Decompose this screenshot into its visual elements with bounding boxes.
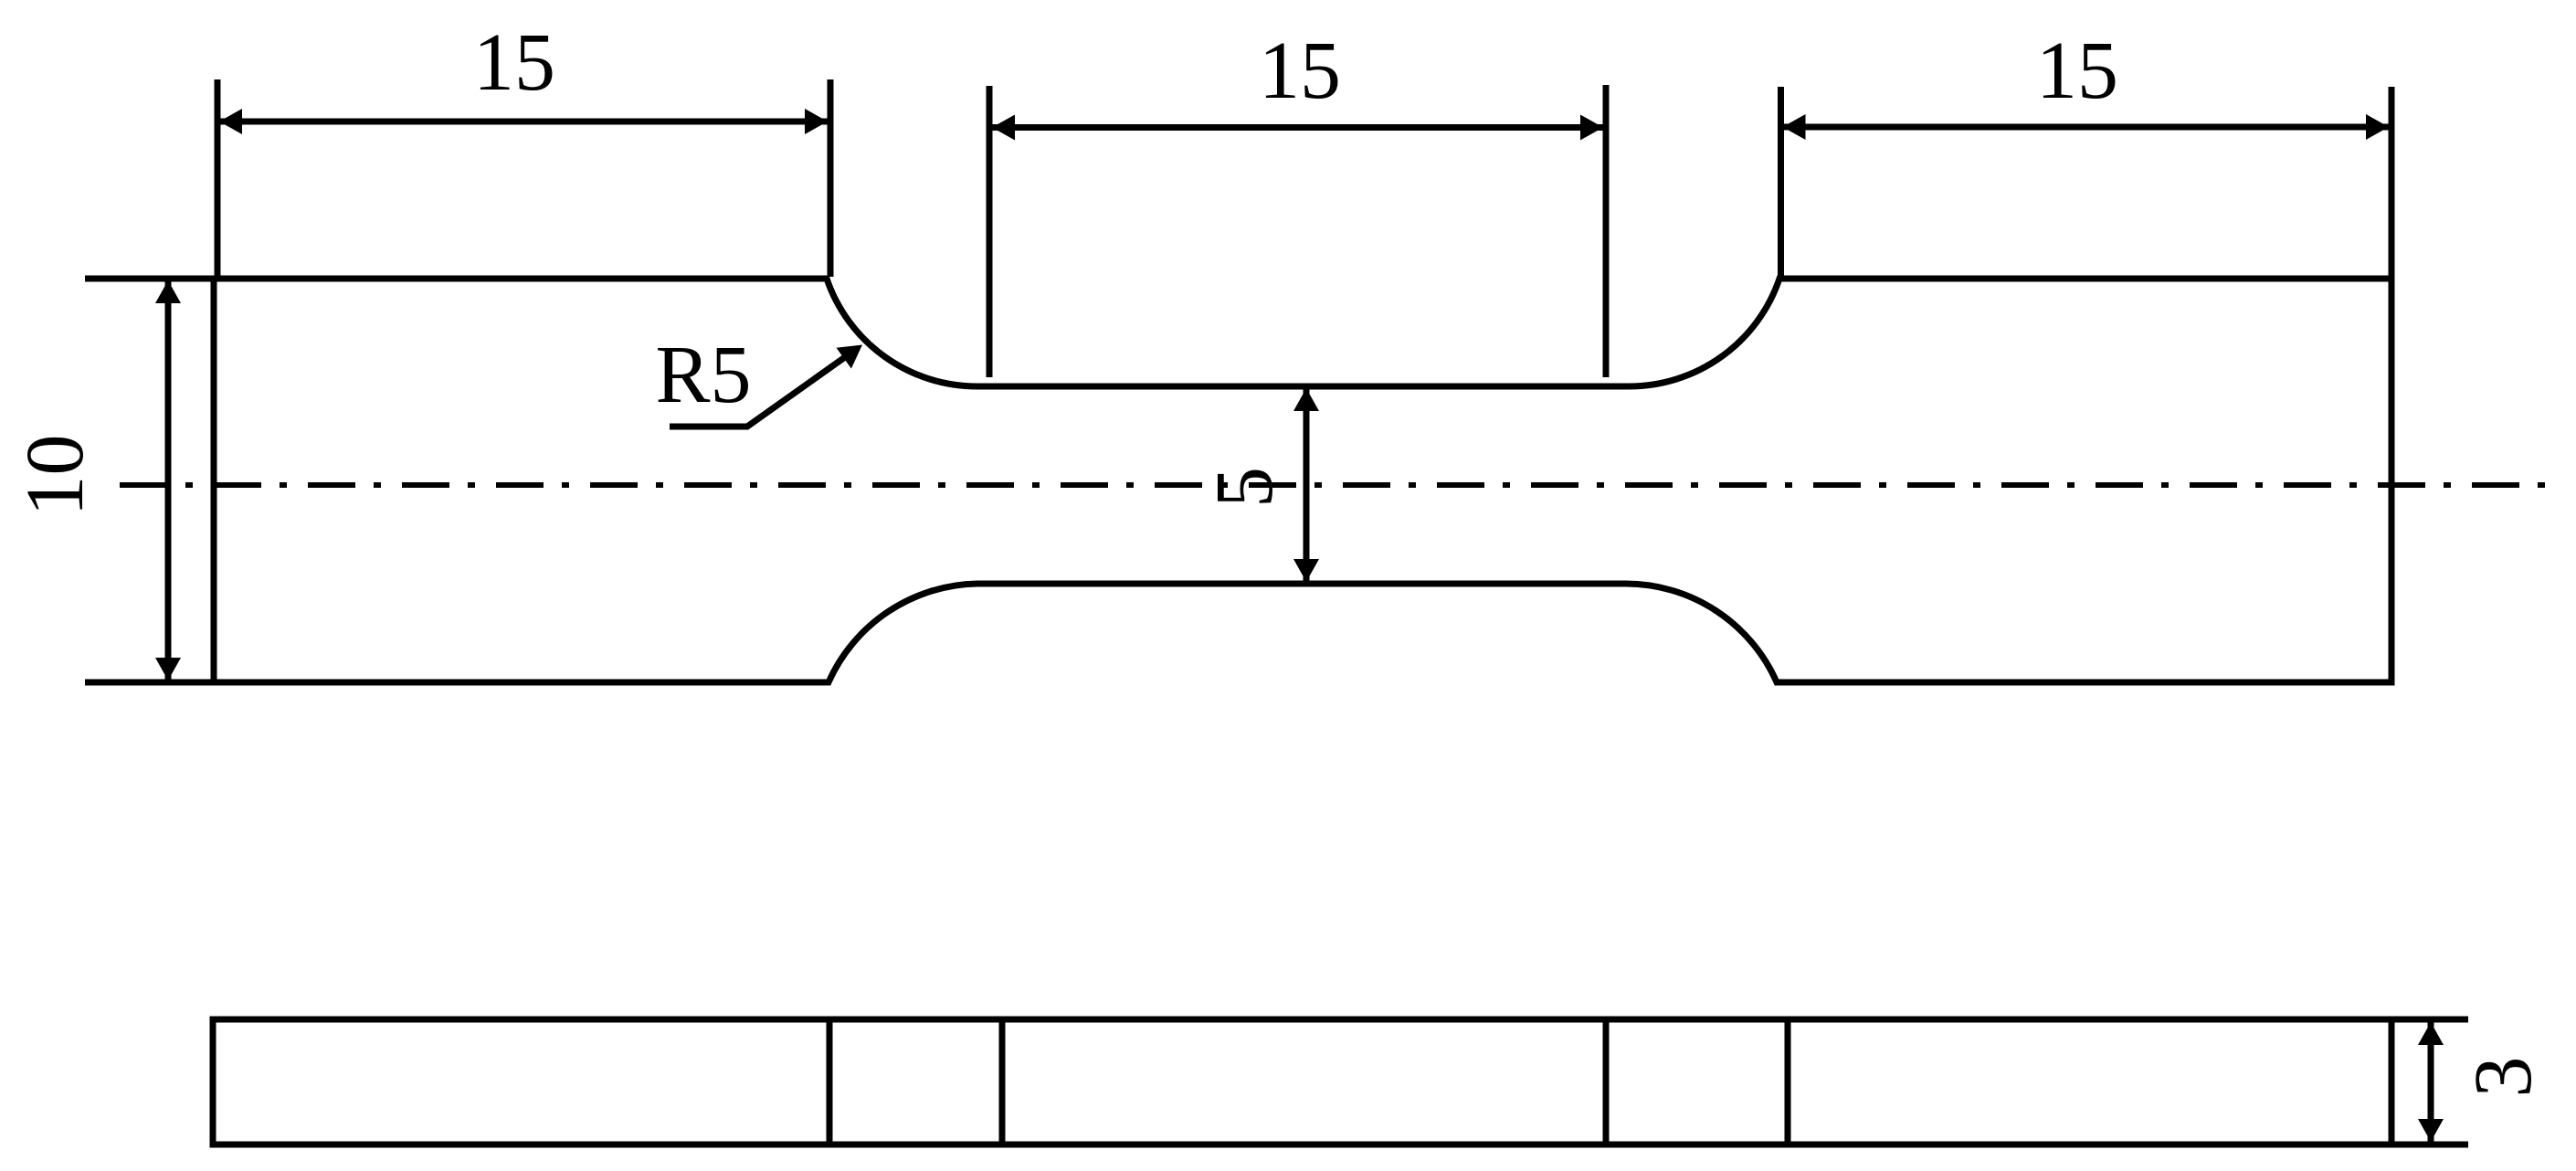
arrowhead dim2 left <box>992 115 1015 141</box>
side view divider 4 <box>1785 1019 1791 1145</box>
specimen top-view outline <box>214 279 2391 682</box>
centerline (dash-dot) <box>120 482 2549 488</box>
arrowhead dim3side top <box>2418 1022 2444 1045</box>
extension line dim10 bottom <box>85 680 219 686</box>
arrowhead dim3 left <box>1783 114 1806 140</box>
svg-text:5: 5 <box>1199 467 1290 508</box>
leader R5 arrowhead <box>837 345 863 369</box>
arrowhead dim1 left <box>219 109 242 134</box>
svg-text:3: 3 <box>2458 1057 2549 1098</box>
dimension line 3 <box>2428 1022 2434 1142</box>
arrowhead dim3side bottom <box>2418 1119 2444 1142</box>
svg-text:15: 15 <box>2036 26 2118 116</box>
svg-text:15: 15 <box>473 17 555 108</box>
side view rectangle <box>213 1019 2391 1145</box>
arrowhead dim5 bottom <box>1293 559 1319 582</box>
side view divider 3 <box>1603 1019 1610 1145</box>
arrowhead dim10 top <box>155 280 181 303</box>
dimension line 5 (gauge width) <box>1304 389 1310 581</box>
svg-text:10: 10 <box>10 435 100 517</box>
extension line dim2 left <box>987 86 993 377</box>
arrowhead dim2 right <box>1580 115 1603 141</box>
arrowhead dim3 right <box>2366 114 2389 140</box>
extension line dim3side bottom <box>2391 1142 2468 1148</box>
dimension line 15 (left) <box>219 119 828 125</box>
svg-text:15: 15 <box>1259 26 1341 116</box>
extension line dim2 right <box>1603 85 1610 377</box>
arrowhead dim5 top <box>1293 388 1319 411</box>
extension line dim3 right <box>2389 87 2395 279</box>
leader R5 line <box>670 357 845 427</box>
dimension line 15 (right) <box>1783 124 2390 131</box>
extension line dim3side top <box>2391 1017 2468 1023</box>
svg-text:R5: R5 <box>655 330 751 420</box>
extension line dim3 left <box>1778 87 1784 279</box>
arrowhead dim1 right <box>805 109 828 134</box>
dimension line 15 (middle) <box>992 124 1603 131</box>
side view divider 2 <box>999 1019 1006 1145</box>
extension line dim10 top <box>85 276 219 282</box>
extension line dim1 left <box>215 79 221 279</box>
side view divider 1 <box>827 1019 833 1145</box>
arrowhead dim10 bottom <box>155 658 181 680</box>
extension line dim1 right <box>828 79 834 277</box>
dimension line 10 <box>165 280 172 680</box>
